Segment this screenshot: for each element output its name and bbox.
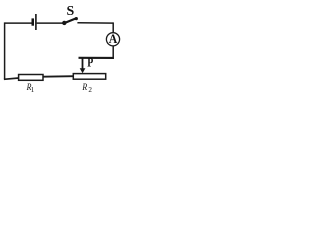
- wire switch to top-right corner: [77, 22, 113, 24]
- wire ammeter down: [112, 46, 114, 59]
- svg-text:A: A: [109, 31, 118, 46]
- switch S contact tip: [75, 17, 78, 20]
- svg-text:P: P: [87, 56, 93, 70]
- battery cell: short thick negative plate: [32, 18, 35, 25]
- resistor R1 body: [19, 75, 43, 81]
- svg-text:2: 2: [88, 86, 92, 94]
- switch S lever (open blade): [65, 18, 77, 23]
- wire top-left horizontal (battery to left corner): [5, 22, 32, 24]
- battery cell: long thin positive plate: [35, 14, 37, 30]
- switch S pivot dot: [62, 21, 66, 25]
- wire R1 to R2: [43, 75, 73, 78]
- svg-text:1: 1: [31, 86, 35, 94]
- svg-text:R: R: [82, 82, 88, 93]
- ammeter A circle: [106, 33, 119, 46]
- svg-text:S: S: [67, 4, 75, 19]
- wire bottom-left horizontal into R1: [4, 78, 19, 79]
- slider P arrowhead: [80, 68, 86, 73]
- wire right vertical down to ammeter: [112, 22, 114, 32]
- wire left vertical: [4, 22, 6, 79]
- rheostat R2 body: [73, 74, 105, 80]
- wire battery to switch pivot: [37, 22, 63, 24]
- slider P arrow stem: [82, 58, 84, 69]
- wire horizontal to slider P: [79, 57, 114, 59]
